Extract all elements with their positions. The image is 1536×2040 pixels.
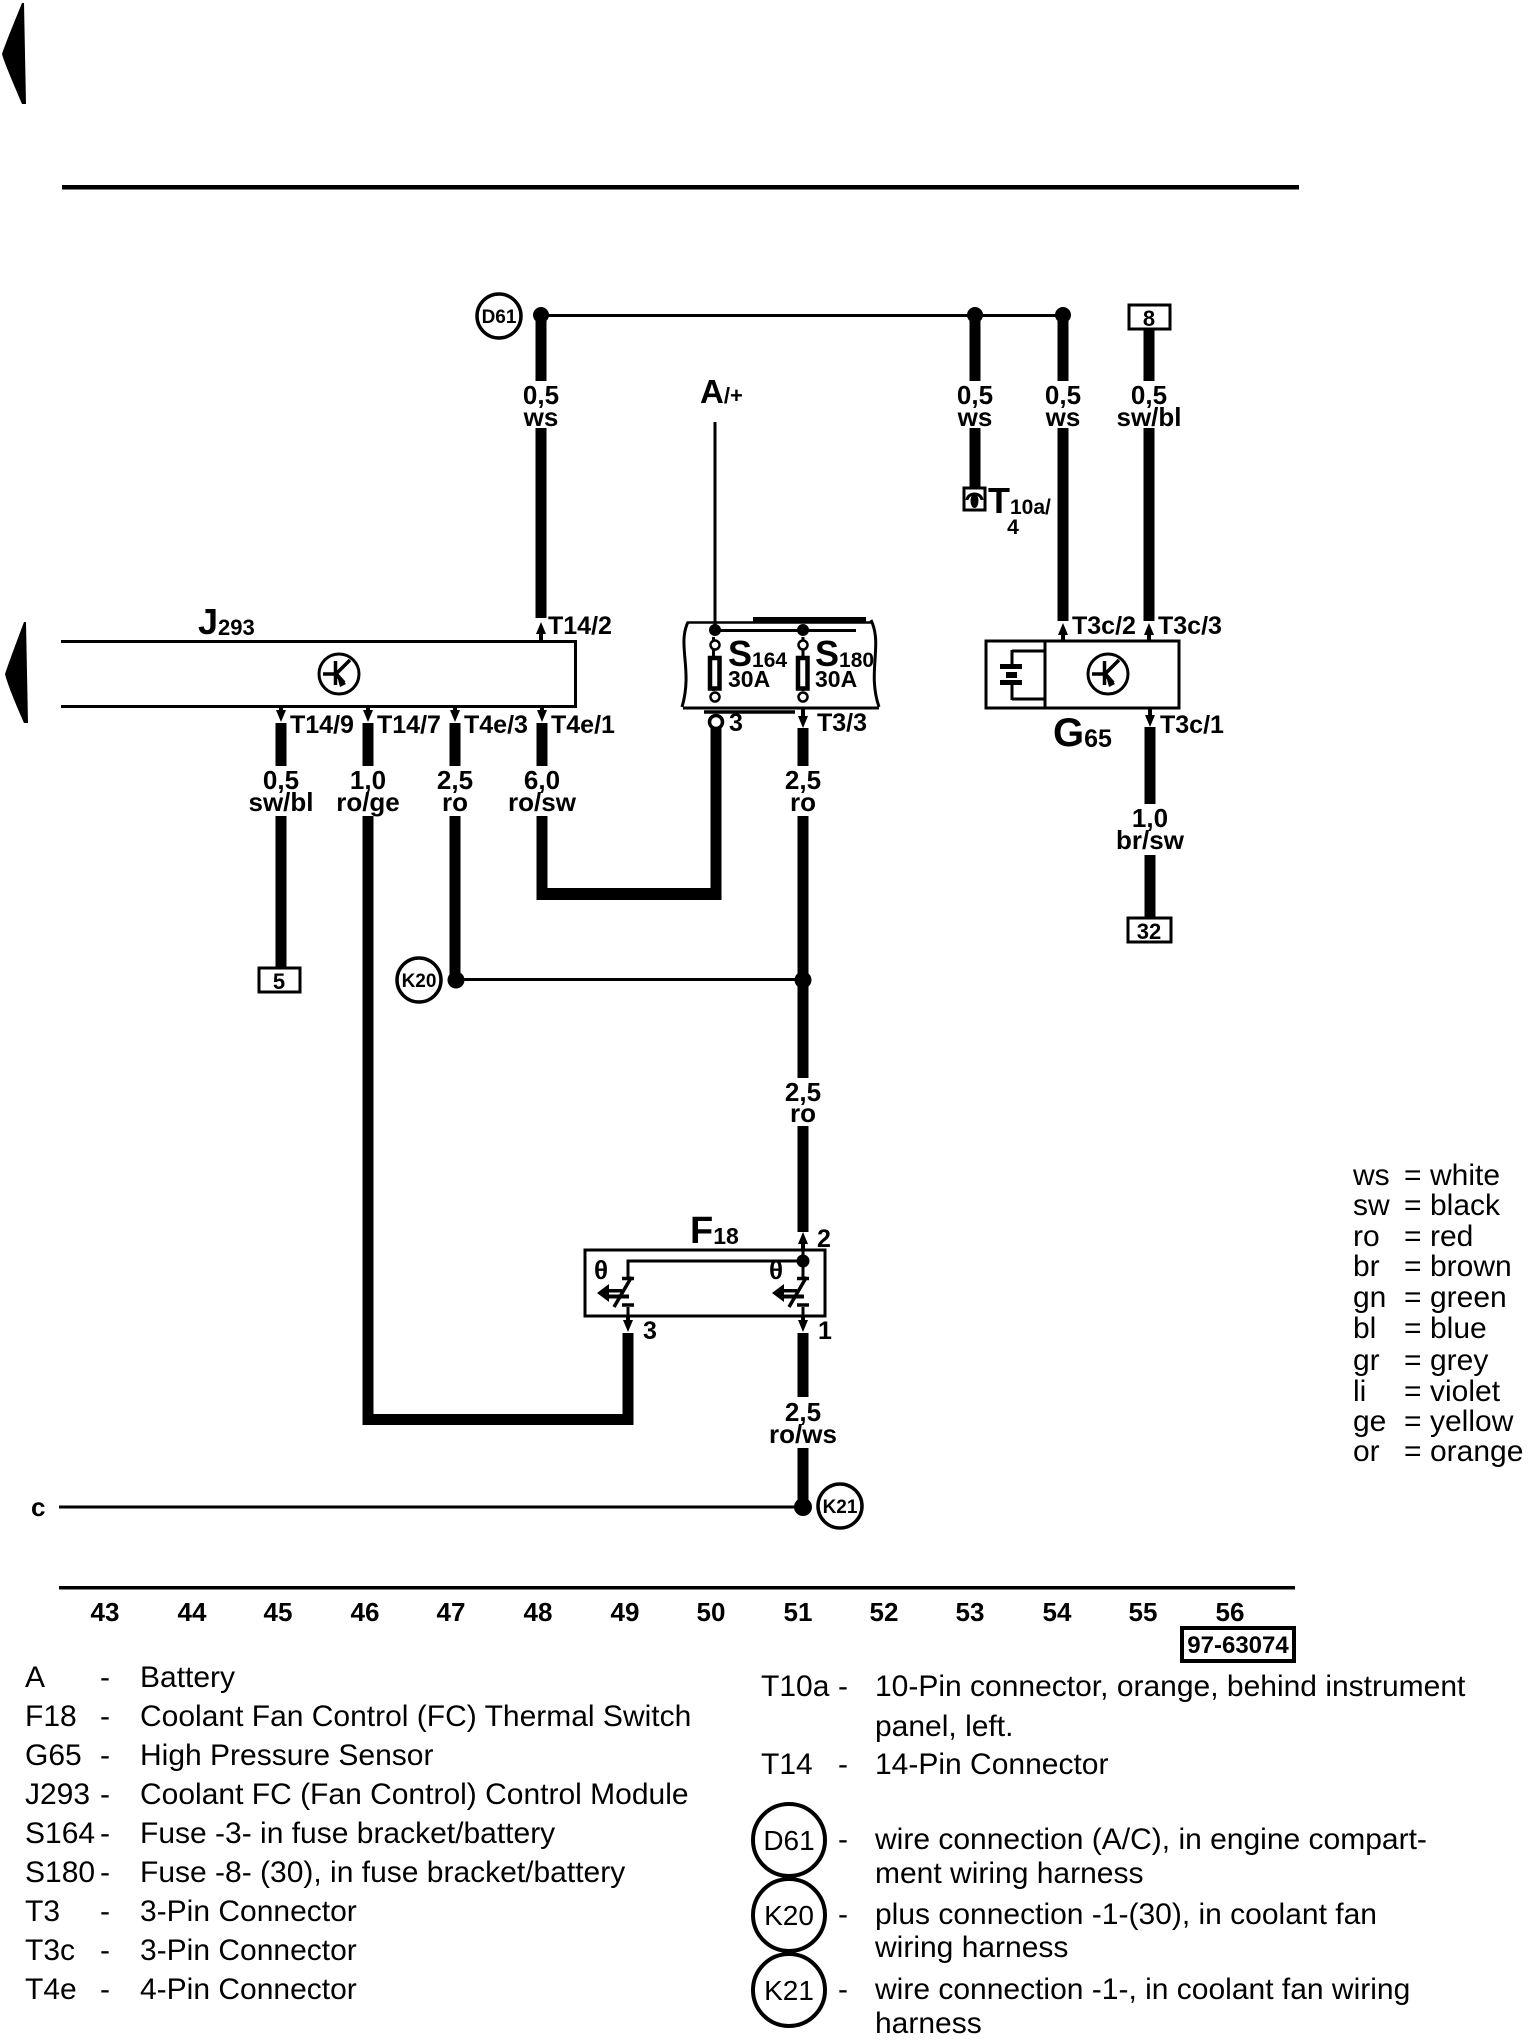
svg-text:ro: ro bbox=[442, 787, 468, 817]
svg-text:=: = bbox=[1404, 1405, 1422, 1438]
svg-text:T4e/3: T4e/3 bbox=[464, 711, 528, 739]
pin T4e/3 arrow bbox=[450, 707, 460, 722]
svg-text:50: 50 bbox=[697, 1597, 726, 1627]
wire: thin line from A/+ down to fuse bus bbox=[714, 422, 717, 630]
svg-text:bl: bl bbox=[1353, 1312, 1376, 1345]
svg-text:-: - bbox=[838, 1670, 848, 1703]
diagram number box 97-63074 bbox=[1182, 1628, 1294, 1661]
svg-text:S164: S164 bbox=[25, 1817, 95, 1850]
wire 0,5 sw/bl lower to terminal 5 bbox=[276, 816, 287, 968]
svg-text:-: - bbox=[100, 1934, 110, 1967]
svg-text:T3/3: T3/3 bbox=[817, 709, 867, 737]
svg-text:5: 5 bbox=[273, 969, 285, 994]
wire 0,5 sw/bl from terminal 8 (upper segment) bbox=[1144, 329, 1155, 381]
pin T3c/2 arrow bbox=[1058, 623, 1068, 641]
svg-text:ws: ws bbox=[523, 402, 559, 432]
svg-text:97-63074: 97-63074 bbox=[1187, 1632, 1289, 1659]
svg-text:ro: ro bbox=[790, 787, 816, 817]
svg-text:53: 53 bbox=[956, 1597, 985, 1627]
wire 2,5 ro down to F18 pin 2 bbox=[798, 1126, 809, 1232]
wire from F18 pin 3 down bbox=[623, 1333, 634, 1425]
F18 left actuation arrow bbox=[597, 1284, 609, 1302]
svg-text:Coolant FC (Fan Control) Contr: Coolant FC (Fan Control) Control Module bbox=[140, 1778, 689, 1811]
wire 2,5 ro below T3/3 (upper) bbox=[798, 728, 809, 766]
F18 right actuation arrow bbox=[772, 1284, 784, 1302]
wire 0,5 ws lower segment to T10a bbox=[970, 428, 981, 488]
svg-text:green: green bbox=[1430, 1281, 1507, 1314]
svg-text:High Pressure Sensor: High Pressure Sensor bbox=[140, 1739, 433, 1772]
legend K20 circle bbox=[753, 1879, 1377, 1964]
wire: thin bus line inside fuse panel bbox=[715, 629, 856, 632]
svg-text:K21: K21 bbox=[823, 1497, 858, 1518]
wire 1,0 ro/ge long vertical down to F18 corner bbox=[363, 816, 374, 1425]
svg-text:14-Pin Connector: 14-Pin Connector bbox=[875, 1748, 1108, 1781]
svg-text:-: - bbox=[838, 1973, 848, 2006]
svg-text:-: - bbox=[100, 1856, 110, 1889]
node: K20 junction dot bbox=[448, 972, 465, 989]
svg-text:harness: harness bbox=[875, 2007, 982, 2040]
node: junction at D61 bbox=[533, 307, 549, 323]
svg-text:T14/7: T14/7 bbox=[377, 711, 441, 739]
svg-text:-: - bbox=[100, 1778, 110, 1811]
svg-text:3-Pin Connector: 3-Pin Connector bbox=[140, 1895, 357, 1928]
bottom rule bbox=[59, 1586, 1295, 1590]
svg-text:10-Pin connector, orange, behi: 10-Pin connector, orange, behind instrum… bbox=[875, 1670, 1466, 1703]
svg-text:K20: K20 bbox=[764, 1900, 814, 1931]
svg-text:li: li bbox=[1353, 1375, 1366, 1408]
wire 6,0 ro/sw horizontal run bbox=[537, 888, 722, 900]
svg-text:D61: D61 bbox=[763, 1825, 814, 1856]
svg-text:violet: violet bbox=[1430, 1375, 1501, 1408]
svg-text:54: 54 bbox=[1043, 1597, 1072, 1627]
svg-text:Coolant Fan Control (FC) Therm: Coolant Fan Control (FC) Thermal Switch bbox=[140, 1700, 691, 1733]
svg-text:gn: gn bbox=[1353, 1281, 1386, 1314]
wire 1,0 br/sw lower to terminal 32 bbox=[1145, 855, 1156, 918]
svg-text:plus connection -1-(30), in co: plus connection -1-(30), in coolant fan bbox=[875, 1898, 1377, 1931]
svg-text:D61: D61 bbox=[482, 307, 517, 328]
svg-text:2: 2 bbox=[817, 1225, 831, 1253]
svg-text:T14/2: T14/2 bbox=[548, 612, 612, 640]
svg-text:br/sw: br/sw bbox=[1116, 825, 1185, 855]
svg-text:ws: ws bbox=[1352, 1159, 1390, 1192]
wire 0,5 sw/bl lower segment to T3c/3 bbox=[1144, 428, 1155, 621]
svg-text:T14/9: T14/9 bbox=[290, 711, 354, 739]
svg-text:ge: ge bbox=[1353, 1405, 1386, 1438]
svg-text:46: 46 bbox=[351, 1597, 380, 1627]
svg-text:55: 55 bbox=[1129, 1597, 1158, 1627]
wire: thin line from K20 node to 2,5 ro wire bbox=[456, 978, 803, 981]
svg-text:45: 45 bbox=[264, 1597, 293, 1627]
svg-text:-: - bbox=[838, 1823, 848, 1856]
wire 2,5 ro/ws lower to K21 bbox=[798, 1448, 809, 1508]
wire horizontal from pin 3 corner to ro/ge wire bbox=[363, 1414, 634, 1425]
svg-text:T10a: T10a bbox=[761, 1670, 830, 1703]
svg-text:47: 47 bbox=[437, 1597, 466, 1627]
svg-text:br: br bbox=[1353, 1250, 1380, 1283]
svg-text:grey: grey bbox=[1430, 1344, 1488, 1377]
svg-text:ro/ge: ro/ge bbox=[336, 787, 400, 817]
F18 right switch contact bbox=[789, 1261, 809, 1316]
svg-text:white: white bbox=[1429, 1159, 1500, 1192]
svg-text:-: - bbox=[100, 1817, 110, 1850]
svg-text:brown: brown bbox=[1430, 1250, 1512, 1283]
thermal switch F18 box bbox=[585, 1250, 825, 1316]
svg-text:4-Pin Connector: 4-Pin Connector bbox=[140, 1973, 357, 2006]
svg-text:=: = bbox=[1404, 1281, 1422, 1314]
wire: thin line c to K21 bbox=[59, 1506, 803, 1509]
control module J293 box bbox=[61, 642, 576, 707]
pin T3/3 arrow below S180 bbox=[798, 709, 808, 728]
terminal 5 box bbox=[259, 968, 300, 994]
svg-text:44: 44 bbox=[178, 1597, 207, 1627]
wire 6,0 ro/sw vertical lower bbox=[537, 816, 548, 900]
wire 2,5 ro/ws from F18 pin 1 (upper) bbox=[798, 1333, 809, 1397]
wire 6,0 ro/sw vertical up to fuse S164 pin 3 bbox=[711, 728, 722, 900]
wire 0,5 ws lower segment to T14/2 bbox=[536, 428, 547, 618]
control module J293 left nav arrow bbox=[5, 622, 28, 723]
svg-text:K21: K21 bbox=[764, 1975, 814, 2006]
svg-text:3: 3 bbox=[643, 1317, 657, 1345]
svg-text:θ: θ bbox=[594, 1255, 608, 1285]
legend D61 circle bbox=[753, 1804, 1427, 1890]
svg-text:-: - bbox=[100, 1739, 110, 1772]
wire 0,5 ws from bus to T10a/4 (upper segment) bbox=[970, 315, 981, 381]
svg-text:T4e: T4e bbox=[25, 1973, 77, 2006]
svg-text:sw: sw bbox=[1353, 1189, 1390, 1222]
wire 1,0 ro/ge from T14/7 (upper) bbox=[363, 723, 374, 766]
plus connection K20 symbol bbox=[397, 958, 441, 1002]
svg-text:T3c/2: T3c/2 bbox=[1072, 612, 1136, 640]
G65 sensor symbol bbox=[1012, 650, 1045, 700]
svg-text:T4e/1: T4e/1 bbox=[551, 711, 615, 739]
svg-text:=: = bbox=[1404, 1344, 1422, 1377]
svg-text:sw/bl: sw/bl bbox=[248, 787, 313, 817]
wire: thin bus line from D61 junction to x1063 bbox=[541, 314, 1063, 317]
node: junction ws wire 2 bbox=[967, 307, 983, 323]
pin T3c/3 arrow bbox=[1144, 623, 1154, 641]
svg-text:wire connection -1-, in coolan: wire connection -1-, in coolant fan wiri… bbox=[874, 1973, 1410, 2006]
svg-text:A: A bbox=[25, 1661, 45, 1694]
wire 0,5 ws lower segment to T3c/2 bbox=[1058, 428, 1069, 621]
colour code legend bbox=[1352, 1159, 1523, 1468]
svg-text:=: = bbox=[1404, 1312, 1422, 1345]
svg-text:3-Pin Connector: 3-Pin Connector bbox=[140, 1934, 357, 1967]
legend left column bbox=[25, 1661, 691, 2006]
svg-text:ro/sw: ro/sw bbox=[508, 787, 577, 817]
wire 2,5 ro to K20 line junction bbox=[798, 816, 809, 1078]
svg-text:red: red bbox=[1430, 1220, 1473, 1253]
svg-text:51: 51 bbox=[784, 1597, 813, 1627]
svg-text:=: = bbox=[1404, 1375, 1422, 1408]
legend K21 circle bbox=[753, 1954, 1410, 2040]
svg-text:ro: ro bbox=[790, 1098, 816, 1128]
svg-text:=: = bbox=[1404, 1189, 1422, 1222]
svg-text:1: 1 bbox=[818, 1317, 832, 1345]
svg-text:48: 48 bbox=[524, 1597, 553, 1627]
svg-text:T14: T14 bbox=[761, 1748, 813, 1781]
svg-text:wire connection (A/C), in engi: wire connection (A/C), in engine compart… bbox=[874, 1823, 1427, 1856]
svg-text:orange: orange bbox=[1430, 1435, 1523, 1468]
terminal 8 box bbox=[1129, 305, 1170, 331]
svg-text:3: 3 bbox=[729, 709, 743, 737]
svg-text:F18: F18 bbox=[25, 1700, 77, 1733]
svg-text:-: - bbox=[100, 1700, 110, 1733]
wire 2,5 ro lower to K20 node bbox=[450, 816, 461, 980]
svg-text:Fuse -3- in fuse bracket/batte: Fuse -3- in fuse bracket/battery bbox=[140, 1817, 555, 1850]
G65 K symbol circle bbox=[1088, 654, 1128, 694]
svg-text:G65: G65 bbox=[25, 1739, 82, 1772]
svg-text:-: - bbox=[838, 1748, 848, 1781]
svg-text:S180: S180 bbox=[25, 1856, 95, 1889]
J293 K symbol circle bbox=[319, 654, 359, 694]
connector T10a/4 symbol bbox=[964, 488, 985, 510]
svg-text:=: = bbox=[1404, 1435, 1422, 1468]
svg-text:yellow: yellow bbox=[1430, 1405, 1514, 1438]
svg-text:J293: J293 bbox=[25, 1778, 90, 1811]
svg-text:or: or bbox=[1353, 1435, 1380, 1468]
svg-text:blue: blue bbox=[1430, 1312, 1487, 1345]
fuse S164 bbox=[710, 637, 720, 702]
svg-text:ro: ro bbox=[1353, 1220, 1380, 1253]
wire 0,5 ws from D61 to T14/2 (upper segment) bbox=[536, 315, 547, 381]
svg-text:panel, left.: panel, left. bbox=[875, 1710, 1013, 1743]
svg-text:=: = bbox=[1404, 1159, 1422, 1192]
wire 6,0 ro/sw from T4e/1 (upper) bbox=[537, 723, 548, 766]
svg-text:4: 4 bbox=[1007, 516, 1019, 539]
wire connection K21 symbol bbox=[818, 1484, 862, 1528]
svg-text:gr: gr bbox=[1353, 1344, 1380, 1377]
svg-text:30A: 30A bbox=[815, 666, 857, 692]
svg-text:Fuse -8- (30), in fuse bracket: Fuse -8- (30), in fuse bracket/battery bbox=[140, 1856, 625, 1889]
svg-text:Battery: Battery bbox=[140, 1661, 235, 1694]
wire 0,5 sw/bl from T14/9 (upper) bbox=[276, 723, 287, 766]
svg-text:52: 52 bbox=[870, 1597, 899, 1627]
pin T4e/1 arrow bbox=[537, 707, 547, 722]
svg-text:-: - bbox=[838, 1898, 848, 1931]
high pressure sensor G65 box bbox=[986, 641, 1179, 708]
fuse S180 bbox=[798, 637, 808, 702]
wire 2,5 ro from T4e/3 (upper) bbox=[450, 723, 461, 766]
svg-text:30A: 30A bbox=[728, 666, 770, 692]
svg-text:ws: ws bbox=[1045, 402, 1081, 432]
pin T14/7 arrow bbox=[363, 707, 373, 722]
svg-text:49: 49 bbox=[611, 1597, 640, 1627]
pin 3 open circle below S164 bbox=[710, 716, 723, 729]
svg-text:T3: T3 bbox=[25, 1895, 60, 1928]
legend right column T10a bbox=[761, 1670, 1466, 1781]
svg-text:T3c: T3c bbox=[25, 1934, 75, 1967]
svg-text:black: black bbox=[1430, 1189, 1501, 1222]
node: junction on fuse bus at S180 bbox=[797, 624, 809, 636]
svg-text:-: - bbox=[100, 1895, 110, 1928]
pin 3 arrow (down) bbox=[623, 1316, 633, 1332]
pin T14/2 arrow bbox=[536, 622, 546, 641]
node: K21 junction dot bbox=[794, 1498, 812, 1516]
svg-text:T3c/1: T3c/1 bbox=[1160, 711, 1224, 739]
wire connection D61 symbol bbox=[477, 294, 521, 338]
pin T3c/1 arrow bbox=[1145, 708, 1155, 727]
svg-text:56: 56 bbox=[1216, 1597, 1245, 1627]
svg-text:wiring harness: wiring harness bbox=[874, 1931, 1068, 1964]
svg-text:c: c bbox=[31, 1492, 45, 1522]
pin T14/9 arrow bbox=[276, 707, 286, 722]
wire 1,0 br/sw below T3c/1 (upper) bbox=[1145, 727, 1156, 804]
svg-text:32: 32 bbox=[1137, 919, 1161, 944]
svg-text:-: - bbox=[100, 1973, 110, 2006]
svg-text:=: = bbox=[1404, 1220, 1422, 1253]
top rule bbox=[62, 185, 1299, 190]
svg-text:ment wiring harness: ment wiring harness bbox=[875, 1857, 1143, 1890]
terminal 32 box bbox=[1128, 918, 1171, 944]
node: junction A/+ to fuse S164 bbox=[709, 624, 721, 636]
svg-text:8: 8 bbox=[1143, 306, 1155, 331]
F18 left switch contact bbox=[614, 1277, 634, 1316]
wire 0,5 ws from bus to T3c/2 (upper segment) bbox=[1058, 315, 1069, 381]
track numbers row bbox=[91, 1597, 1245, 1627]
svg-text:43: 43 bbox=[91, 1597, 120, 1627]
svg-text:K20: K20 bbox=[402, 971, 437, 992]
node: junction with K20 line bbox=[795, 972, 812, 989]
fuse bracket panel (wavy box) bbox=[682, 620, 879, 713]
svg-text:ro/ws: ro/ws bbox=[769, 1419, 837, 1449]
svg-text:sw/bl: sw/bl bbox=[1116, 402, 1181, 432]
svg-text:T3c/3: T3c/3 bbox=[1158, 612, 1222, 640]
pin 2 arrow (up) bbox=[798, 1232, 808, 1250]
node: junction ws wire 3 bbox=[1055, 307, 1071, 323]
svg-text:θ: θ bbox=[769, 1255, 783, 1285]
node: F18 internal junction bbox=[797, 1255, 810, 1268]
svg-text:ws: ws bbox=[957, 402, 993, 432]
nav arrow top-left bbox=[2, 3, 26, 104]
pin 1 arrow (down) bbox=[798, 1316, 808, 1332]
svg-text:=: = bbox=[1404, 1250, 1422, 1283]
svg-text:-: - bbox=[100, 1661, 110, 1694]
wire: F18 internal bridge bbox=[628, 1250, 803, 1277]
